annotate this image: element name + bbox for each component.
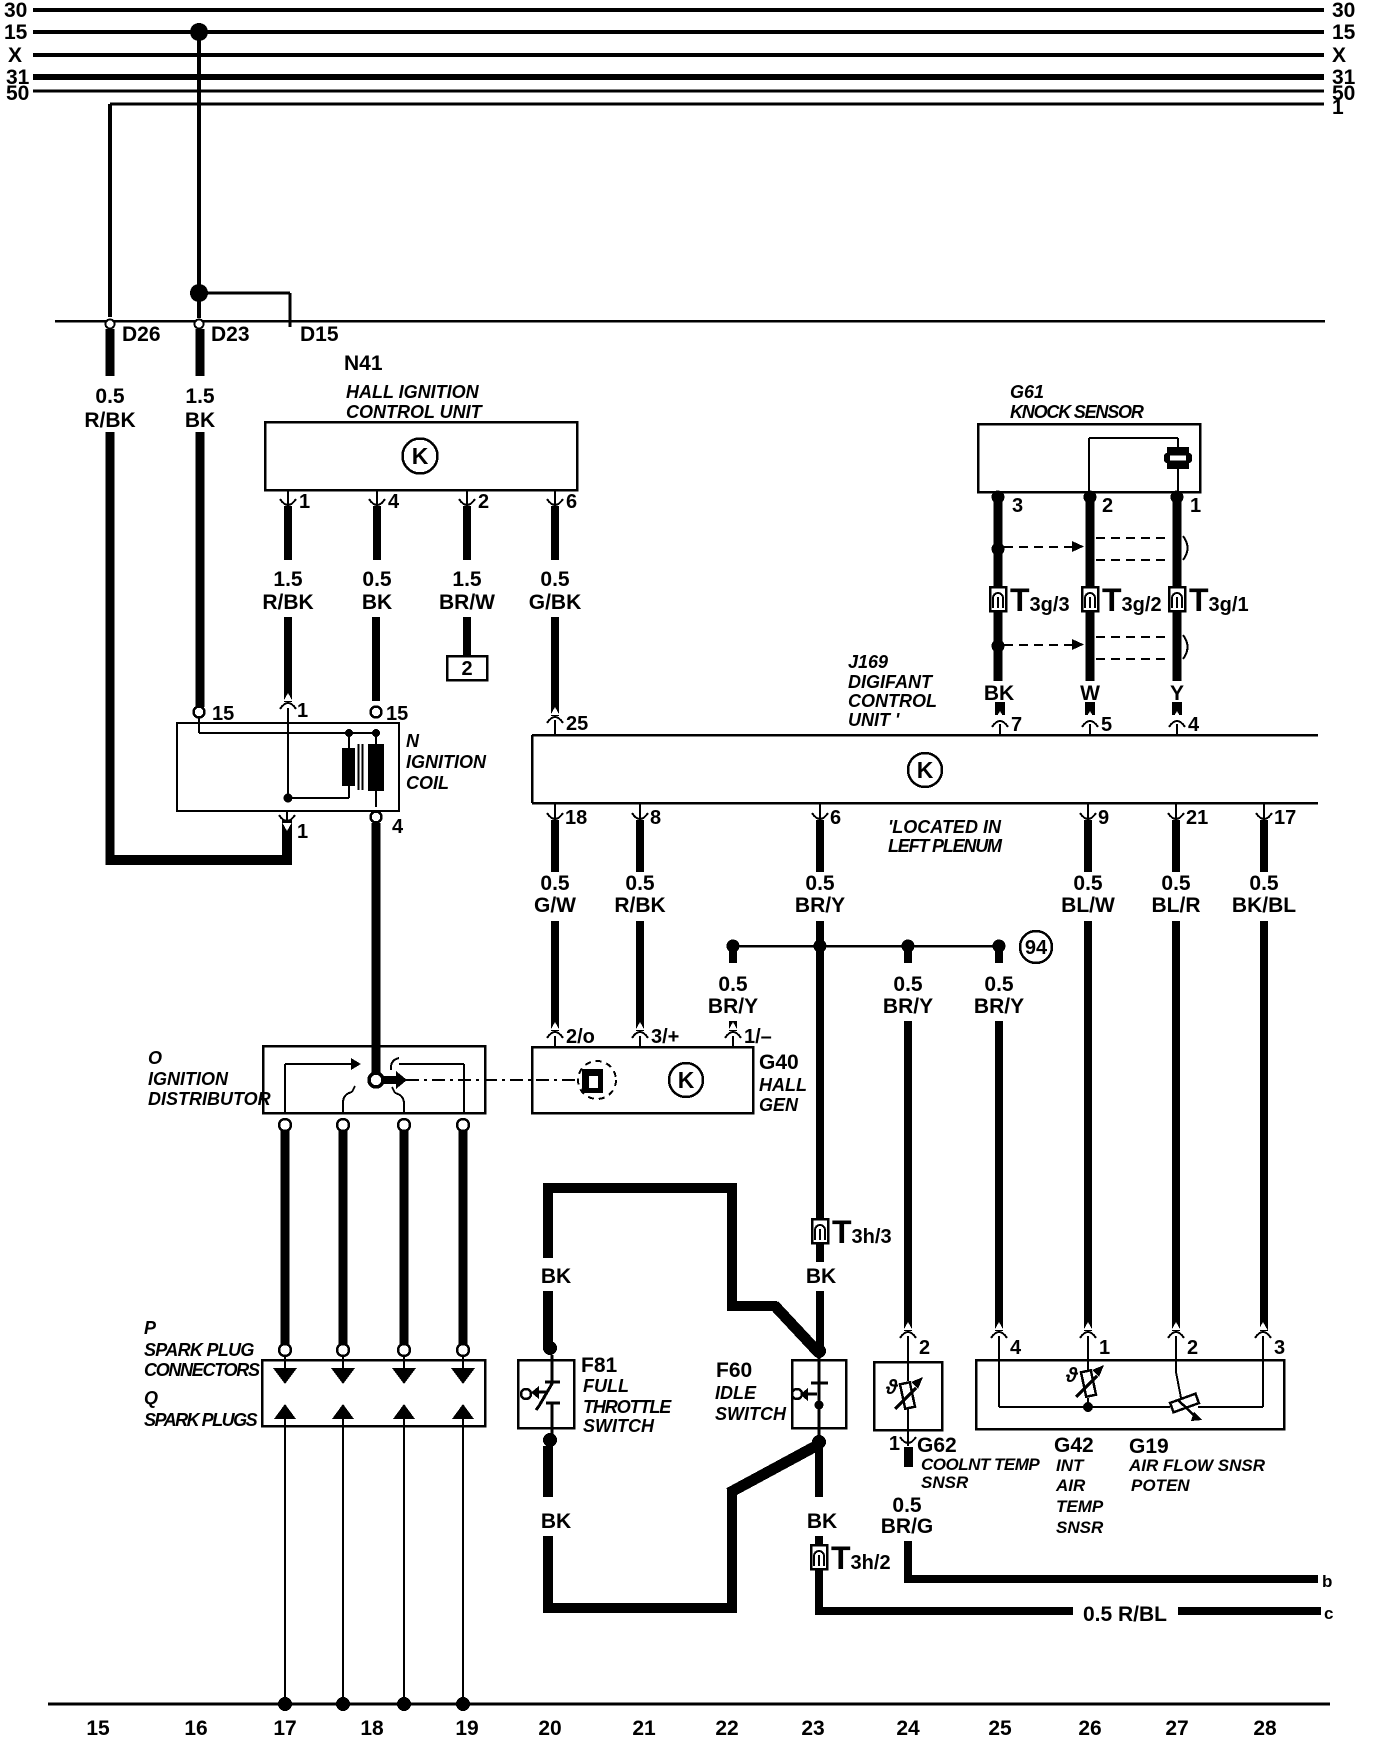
- svg-text:2: 2: [919, 1337, 930, 1359]
- svg-text:R/BK: R/BK: [84, 409, 135, 432]
- svg-text:0.5: 0.5: [984, 973, 1014, 996]
- svg-text:1.5: 1.5: [452, 568, 482, 591]
- svg-text:27: 27: [1165, 1717, 1188, 1740]
- svg-text:X: X: [8, 44, 22, 67]
- svg-text:G40: G40: [759, 1051, 799, 1074]
- svg-text:22: 22: [715, 1717, 738, 1740]
- svg-text:0.5: 0.5: [893, 973, 923, 996]
- svg-text:25: 25: [566, 713, 588, 735]
- svg-text:0.5: 0.5: [540, 872, 570, 895]
- svg-text:b: b: [1322, 1572, 1332, 1591]
- svg-text:18: 18: [565, 807, 587, 829]
- svg-text:G62: G62: [917, 1434, 957, 1457]
- svg-text:0.5: 0.5: [892, 1494, 922, 1517]
- svg-text:INT: INT: [1056, 1456, 1085, 1475]
- svg-text:'LOCATED IN: 'LOCATED IN: [888, 817, 1002, 837]
- svg-text:R/BK: R/BK: [614, 894, 665, 917]
- svg-text:Q: Q: [144, 1388, 158, 1408]
- svg-text:SWITCH: SWITCH: [583, 1416, 655, 1436]
- svg-text:30: 30: [1332, 0, 1355, 22]
- svg-text:GEN: GEN: [759, 1095, 799, 1115]
- svg-text:2/o: 2/o: [566, 1026, 595, 1048]
- svg-text:15: 15: [86, 1717, 110, 1740]
- svg-text:G/BK: G/BK: [529, 591, 582, 614]
- svg-text:50: 50: [6, 82, 29, 105]
- svg-text:CONTROL UNIT: CONTROL UNIT: [346, 402, 484, 422]
- svg-text:1: 1: [1190, 495, 1201, 517]
- svg-text:1.5: 1.5: [185, 385, 215, 408]
- svg-text:1: 1: [297, 821, 308, 843]
- svg-text:G19: G19: [1129, 1435, 1169, 1458]
- svg-text:SPARK PLUGS: SPARK PLUGS: [144, 1410, 258, 1430]
- svg-text:UNIT ': UNIT ': [848, 710, 900, 730]
- svg-text:3: 3: [1012, 495, 1023, 517]
- svg-text:0.5: 0.5: [1073, 872, 1103, 895]
- svg-text:25: 25: [988, 1717, 1012, 1740]
- svg-text:21: 21: [632, 1717, 656, 1740]
- svg-text:SPARK PLUG: SPARK PLUG: [144, 1340, 254, 1360]
- svg-text:BL/W: BL/W: [1061, 894, 1115, 917]
- svg-text:BK: BK: [185, 409, 215, 432]
- svg-text:1: 1: [889, 1433, 900, 1455]
- svg-text:LEFT PLENUM: LEFT PLENUM: [888, 836, 1003, 856]
- svg-text:6: 6: [566, 491, 577, 513]
- svg-text:1/–: 1/–: [744, 1026, 772, 1048]
- svg-text:BR/Y: BR/Y: [795, 894, 845, 917]
- svg-text:G42: G42: [1054, 1434, 1094, 1457]
- svg-text:17: 17: [273, 1717, 296, 1740]
- svg-text:1.5: 1.5: [273, 568, 303, 591]
- svg-text:K: K: [412, 443, 429, 469]
- svg-text:BR/Y: BR/Y: [974, 995, 1024, 1018]
- svg-text:R/BK: R/BK: [262, 591, 313, 614]
- svg-text:P: P: [144, 1318, 157, 1338]
- svg-text:G61: G61: [1010, 382, 1044, 402]
- svg-text:18: 18: [360, 1717, 384, 1740]
- svg-text:5: 5: [1101, 714, 1112, 736]
- svg-text:1: 1: [299, 491, 310, 513]
- svg-text:23: 23: [801, 1717, 824, 1740]
- svg-text:3/+: 3/+: [651, 1026, 679, 1048]
- svg-text:AIR FLOW SNSR: AIR FLOW SNSR: [1128, 1456, 1266, 1475]
- svg-text:BK: BK: [807, 1510, 837, 1533]
- svg-text:BK: BK: [362, 591, 392, 614]
- svg-text:7: 7: [1011, 714, 1022, 736]
- svg-text:COIL: COIL: [406, 773, 449, 793]
- svg-text:9: 9: [1098, 807, 1109, 829]
- svg-text:THROTTLE: THROTTLE: [583, 1397, 672, 1417]
- svg-text:BR/G: BR/G: [881, 1515, 934, 1538]
- svg-text:94: 94: [1025, 937, 1048, 959]
- svg-text:DIGIFANT: DIGIFANT: [848, 672, 934, 692]
- svg-text:CONTROL: CONTROL: [848, 691, 937, 711]
- svg-text:1: 1: [297, 700, 308, 722]
- svg-text:4: 4: [388, 491, 400, 513]
- svg-text:N: N: [406, 731, 420, 751]
- svg-text:SNSR: SNSR: [921, 1473, 969, 1492]
- svg-text:KNOCK SENSOR: KNOCK SENSOR: [1010, 402, 1144, 422]
- svg-text:IGNITION: IGNITION: [406, 752, 487, 772]
- svg-text:ϑ: ϑ: [885, 1377, 899, 1399]
- svg-text:FULL: FULL: [583, 1376, 629, 1396]
- svg-text:6: 6: [830, 807, 841, 829]
- svg-text:DISTRIBUTOR: DISTRIBUTOR: [148, 1089, 271, 1109]
- svg-text:COOLNT TEMP: COOLNT TEMP: [921, 1455, 1040, 1474]
- svg-text:15: 15: [212, 703, 234, 725]
- svg-text:0.5: 0.5: [362, 568, 392, 591]
- svg-text:HALL: HALL: [759, 1075, 807, 1095]
- svg-text:15: 15: [386, 703, 408, 725]
- svg-text:20: 20: [538, 1717, 561, 1740]
- svg-text:K: K: [917, 757, 934, 783]
- svg-text:17: 17: [1274, 807, 1296, 829]
- svg-text:4: 4: [392, 816, 404, 838]
- svg-text:BK: BK: [541, 1265, 571, 1288]
- svg-text:15: 15: [1332, 21, 1356, 44]
- svg-text:F81: F81: [581, 1354, 618, 1377]
- svg-text:SNSR: SNSR: [1056, 1518, 1104, 1537]
- svg-text:HALL IGNITION: HALL IGNITION: [346, 382, 480, 402]
- svg-text:0.5: 0.5: [1161, 872, 1191, 895]
- svg-text:2: 2: [1187, 1337, 1198, 1359]
- svg-text:O: O: [148, 1048, 162, 1068]
- svg-text:J169: J169: [848, 652, 888, 672]
- svg-text:POTEN: POTEN: [1131, 1476, 1190, 1495]
- svg-text:W: W: [1080, 682, 1100, 705]
- svg-text:28: 28: [1253, 1717, 1277, 1740]
- svg-text:16: 16: [184, 1717, 207, 1740]
- svg-text:IGNITION: IGNITION: [148, 1069, 229, 1089]
- svg-text:2: 2: [1102, 495, 1113, 517]
- svg-text:BR/Y: BR/Y: [708, 995, 758, 1018]
- svg-text:IDLE: IDLE: [715, 1383, 757, 1403]
- svg-text:2: 2: [478, 491, 489, 513]
- svg-text:BL/R: BL/R: [1152, 894, 1201, 917]
- svg-text:26: 26: [1078, 1717, 1101, 1740]
- svg-text:N41: N41: [344, 352, 383, 375]
- svg-text:D23: D23: [211, 323, 250, 346]
- svg-text:AIR: AIR: [1055, 1476, 1086, 1495]
- svg-text:0.5: 0.5: [540, 568, 570, 591]
- svg-text:2: 2: [461, 658, 472, 680]
- svg-text:0.5: 0.5: [1249, 872, 1279, 895]
- svg-text:BK/BL: BK/BL: [1232, 894, 1296, 917]
- svg-text:c: c: [1324, 1604, 1333, 1623]
- svg-text:3: 3: [1274, 1337, 1285, 1359]
- svg-text:SWITCH: SWITCH: [715, 1404, 787, 1424]
- svg-text:0.5: 0.5: [718, 973, 748, 996]
- svg-text:8: 8: [650, 807, 661, 829]
- svg-text:X: X: [1332, 44, 1346, 67]
- svg-text:ϑ: ϑ: [1065, 1365, 1079, 1387]
- svg-text:4: 4: [1010, 1337, 1022, 1359]
- svg-text:19: 19: [455, 1717, 478, 1740]
- svg-text:F60: F60: [716, 1359, 752, 1382]
- svg-text:21: 21: [1186, 807, 1208, 829]
- svg-text:BR/Y: BR/Y: [883, 995, 933, 1018]
- svg-text:BK: BK: [541, 1510, 571, 1533]
- svg-text:15: 15: [4, 21, 28, 44]
- svg-text:BK: BK: [984, 682, 1014, 705]
- svg-text:D15: D15: [300, 323, 339, 346]
- svg-text:BR/W: BR/W: [439, 591, 495, 614]
- svg-text:24: 24: [896, 1717, 920, 1740]
- svg-text:0.5: 0.5: [805, 872, 835, 895]
- svg-text:0.5 R/BL: 0.5 R/BL: [1083, 1603, 1167, 1626]
- svg-text:0.5: 0.5: [625, 872, 655, 895]
- svg-text:1: 1: [1332, 96, 1344, 119]
- svg-text:D26: D26: [122, 323, 161, 346]
- svg-text:4: 4: [1188, 714, 1200, 736]
- svg-text:0.5: 0.5: [95, 385, 125, 408]
- svg-text:TEMP: TEMP: [1056, 1497, 1104, 1516]
- svg-text:CONNECTORS: CONNECTORS: [144, 1360, 260, 1380]
- svg-text:G/W: G/W: [534, 894, 576, 917]
- svg-text:30: 30: [4, 0, 27, 22]
- svg-text:K: K: [678, 1067, 695, 1093]
- svg-text:Y: Y: [1170, 682, 1184, 705]
- svg-text:1: 1: [1099, 1337, 1110, 1359]
- svg-text:BK: BK: [806, 1265, 836, 1288]
